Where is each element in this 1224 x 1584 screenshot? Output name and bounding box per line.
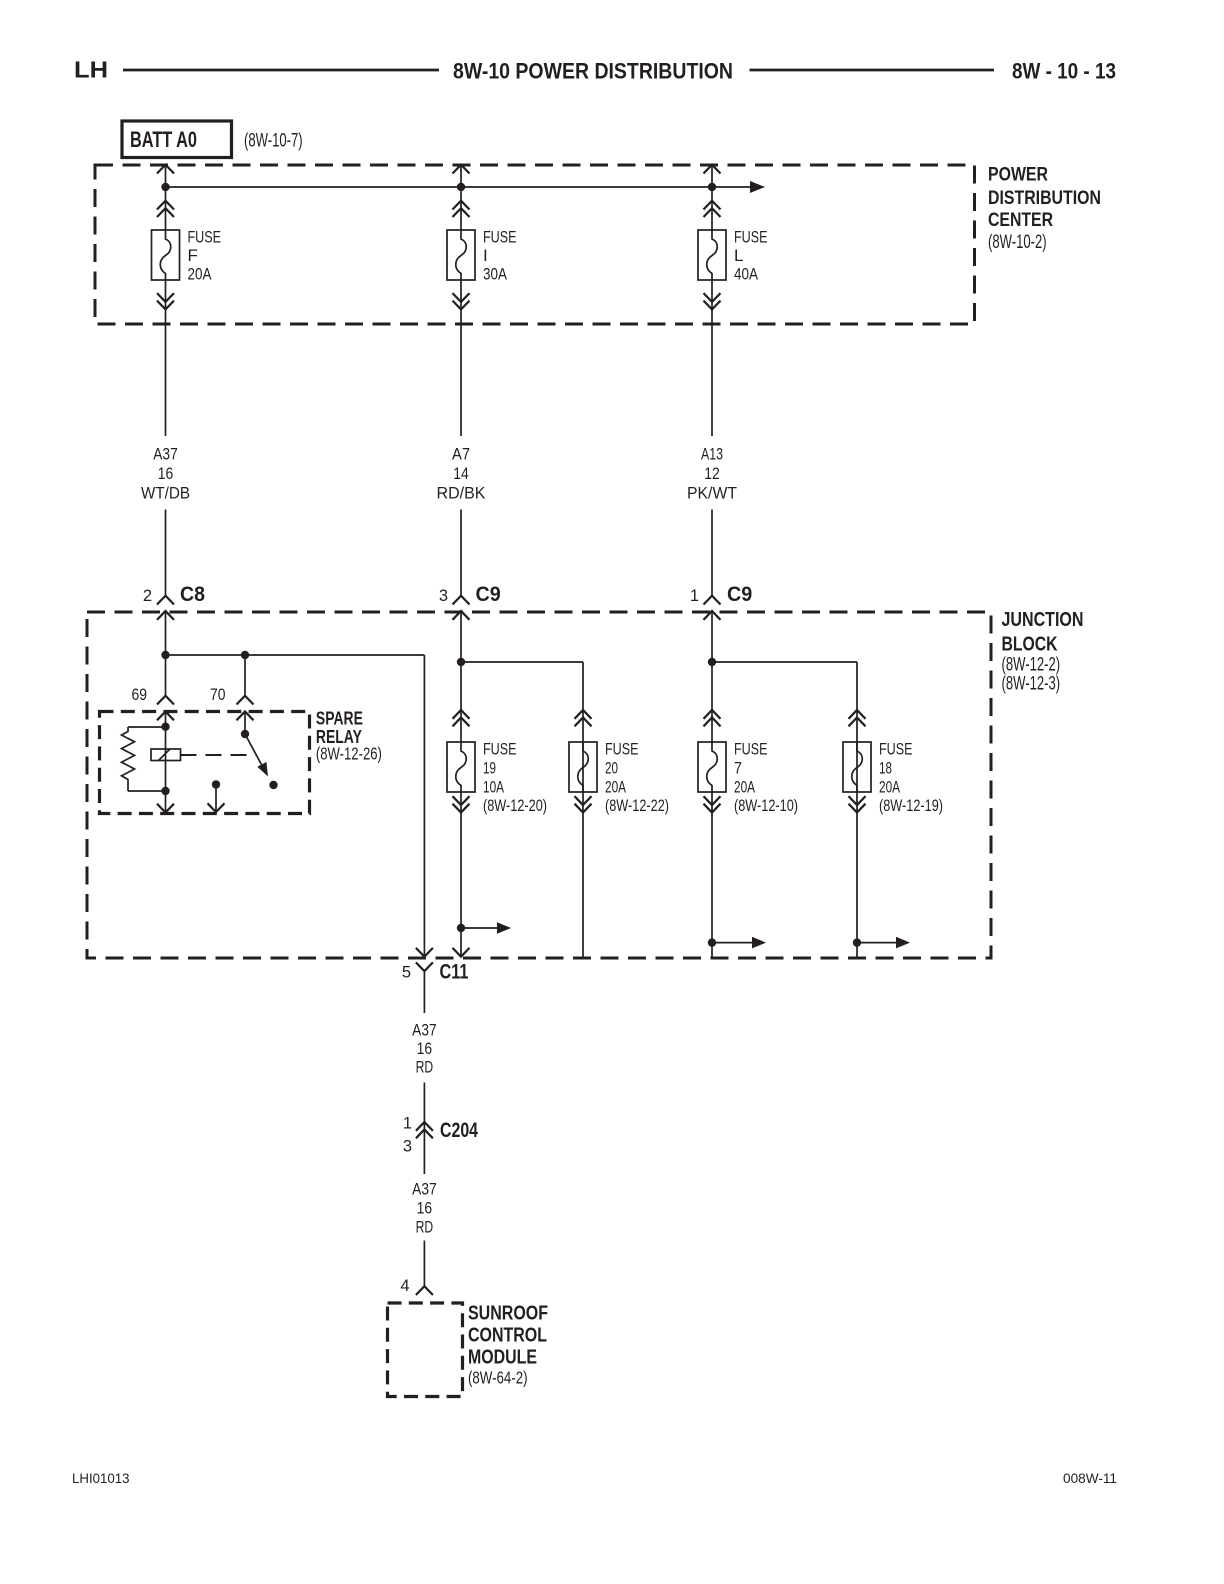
svg-text:FUSE: FUSE [734,228,768,247]
svg-text:LHI01013: LHI01013 [72,1470,130,1486]
svg-text:5: 5 [402,964,411,982]
svg-text:20A: 20A [734,778,755,797]
svg-text:PK/WT: PK/WT [687,484,737,503]
svg-text:BATT A0: BATT A0 [130,127,197,152]
svg-text:19: 19 [483,759,496,778]
svg-text:18: 18 [879,759,892,778]
svg-text:20A: 20A [879,778,900,797]
svg-text:F: F [188,246,198,265]
svg-text:CONTROL: CONTROL [468,1324,547,1346]
svg-text:(8W-12-22): (8W-12-22) [605,796,669,815]
svg-text:WT/DB: WT/DB [141,484,190,503]
svg-text:DISTRIBUTION: DISTRIBUTION [988,187,1101,209]
svg-text:LH: LH [74,57,108,83]
svg-text:20A: 20A [605,778,626,797]
svg-text:C9: C9 [476,583,501,606]
svg-text:8W-10 POWER DISTRIBUTION: 8W-10 POWER DISTRIBUTION [453,58,733,83]
svg-text:C11: C11 [440,961,469,984]
svg-text:SUNROOF: SUNROOF [468,1302,548,1324]
svg-text:1: 1 [690,587,699,605]
svg-text:FUSE: FUSE [483,740,517,759]
svg-text:2: 2 [143,587,152,605]
svg-text:70: 70 [210,686,226,704]
svg-text:12: 12 [704,464,720,483]
svg-text:16: 16 [417,1199,433,1218]
svg-text:FUSE: FUSE [188,228,222,247]
svg-text:(8W-12-2): (8W-12-2) [1002,655,1061,676]
svg-text:(8W-10-7): (8W-10-7) [244,131,303,152]
svg-text:A13: A13 [701,445,723,464]
svg-text:FUSE: FUSE [734,740,768,759]
svg-text:POWER: POWER [988,163,1048,185]
svg-text:JUNCTION: JUNCTION [1002,609,1084,631]
svg-text:7: 7 [734,759,742,778]
svg-text:C9: C9 [727,583,752,606]
svg-text:SPARE: SPARE [316,708,363,728]
svg-text:FUSE: FUSE [605,740,639,759]
svg-text:(8W-12-3): (8W-12-3) [1002,674,1061,695]
svg-text:FUSE: FUSE [879,740,913,759]
svg-text:69: 69 [132,686,148,704]
svg-text:3: 3 [403,1137,412,1155]
svg-text:RD/BK: RD/BK [437,484,487,503]
svg-text:(8W-12-19): (8W-12-19) [879,796,943,815]
svg-text:(8W-64-2): (8W-64-2) [468,1368,528,1388]
svg-text:4: 4 [400,1277,409,1295]
svg-text:C204: C204 [440,1119,478,1142]
svg-text:BLOCK: BLOCK [1002,633,1058,655]
svg-text:C8: C8 [180,583,205,606]
svg-text:16: 16 [417,1039,433,1058]
svg-text:(8W-12-10): (8W-12-10) [734,796,798,815]
svg-text:20: 20 [605,759,618,778]
svg-text:A37: A37 [153,445,178,464]
svg-text:MODULE: MODULE [468,1347,537,1369]
svg-text:CENTER: CENTER [988,209,1053,231]
svg-text:FUSE: FUSE [483,228,517,247]
svg-text:10A: 10A [483,778,504,797]
svg-text:A37: A37 [412,1180,437,1199]
svg-text:1: 1 [403,1114,412,1132]
svg-text:30A: 30A [483,265,508,284]
svg-text:A37: A37 [412,1021,437,1040]
svg-text:(8W-12-20): (8W-12-20) [483,796,547,815]
svg-text:40A: 40A [734,265,759,284]
svg-text:20A: 20A [188,265,213,284]
svg-text:008W-11: 008W-11 [1063,1470,1117,1486]
svg-text:RD: RD [416,1218,434,1237]
svg-text:(8W-10-2): (8W-10-2) [988,232,1047,253]
svg-text:RD: RD [416,1058,434,1077]
svg-text:16: 16 [158,464,174,483]
svg-text:I: I [483,246,488,265]
svg-text:3: 3 [439,587,448,605]
svg-text:A7: A7 [452,445,470,464]
svg-text:(8W-12-26): (8W-12-26) [316,744,382,764]
svg-text:L: L [734,246,743,265]
svg-text:8W - 10 - 13: 8W - 10 - 13 [1012,58,1116,83]
svg-text:14: 14 [453,464,469,483]
